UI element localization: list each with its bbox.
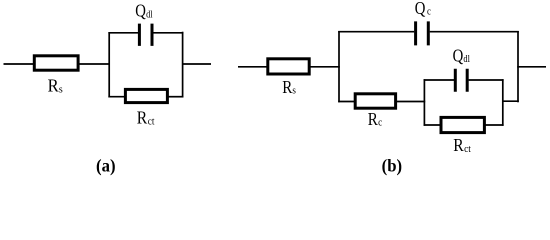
resistor Rs (b) bbox=[268, 59, 309, 74]
wire Rc to inner box (b) bbox=[397, 101, 425, 103]
wire left vertical (a) bbox=[108, 32, 110, 98]
wire Rs to junction (b) bbox=[310, 66, 340, 68]
svg-text:Rct: Rct bbox=[137, 107, 155, 127]
resistor Rs (a) bbox=[34, 56, 78, 70]
svg-text:Qc: Qc bbox=[415, 0, 432, 18]
wire inner left vertical (b) bbox=[423, 79, 425, 126]
capacitor Qc bbox=[416, 21, 429, 45]
svg-text:Rct: Rct bbox=[453, 135, 471, 155]
wire right vertical (b) bbox=[517, 31, 519, 102]
svg-text:(a): (a) bbox=[96, 156, 116, 176]
wire bottom branch left (b) bbox=[338, 101, 355, 103]
wire output b bbox=[517, 66, 546, 68]
svg-text:Rs: Rs bbox=[48, 75, 63, 96]
wire top branch right (b) bbox=[430, 31, 519, 33]
wire left vertical (b) bbox=[338, 31, 340, 102]
capacitor Qdl (a) bbox=[139, 24, 152, 46]
wire input a bbox=[4, 63, 35, 65]
resistor Rct (b) bbox=[441, 117, 484, 132]
wire inner top branch left (b) bbox=[424, 79, 454, 81]
wire inner bottom branch left (b) bbox=[424, 124, 441, 126]
wire inner top branch right (b) bbox=[469, 79, 504, 81]
svg-text:Qdl: Qdl bbox=[453, 45, 471, 66]
wire output a bbox=[182, 63, 211, 65]
wire top branch left (b) bbox=[338, 31, 414, 33]
wire inner right vertical (b) bbox=[502, 79, 504, 126]
resistor Rct (a) bbox=[125, 89, 167, 102]
wire Rs to box (a) bbox=[78, 63, 110, 65]
resistor Rc bbox=[355, 94, 395, 108]
svg-text:Rs: Rs bbox=[282, 76, 296, 97]
wire inner box to right vertical (b) bbox=[503, 100, 519, 102]
capacitor Qdl (b) bbox=[455, 69, 467, 92]
wire bottom branch left (a) bbox=[108, 96, 125, 98]
svg-text:Qdl: Qdl bbox=[135, 0, 153, 21]
wire top branch left (a) bbox=[108, 32, 138, 34]
wire bottom branch right (a) bbox=[168, 96, 184, 98]
wire inner bottom branch right (b) bbox=[485, 124, 504, 126]
wire input b bbox=[238, 66, 268, 68]
svg-text:Rc: Rc bbox=[368, 108, 383, 129]
wire top branch right (a) bbox=[153, 32, 183, 34]
svg-text:(b): (b) bbox=[382, 156, 403, 176]
wire right vertical (a) bbox=[182, 32, 184, 98]
